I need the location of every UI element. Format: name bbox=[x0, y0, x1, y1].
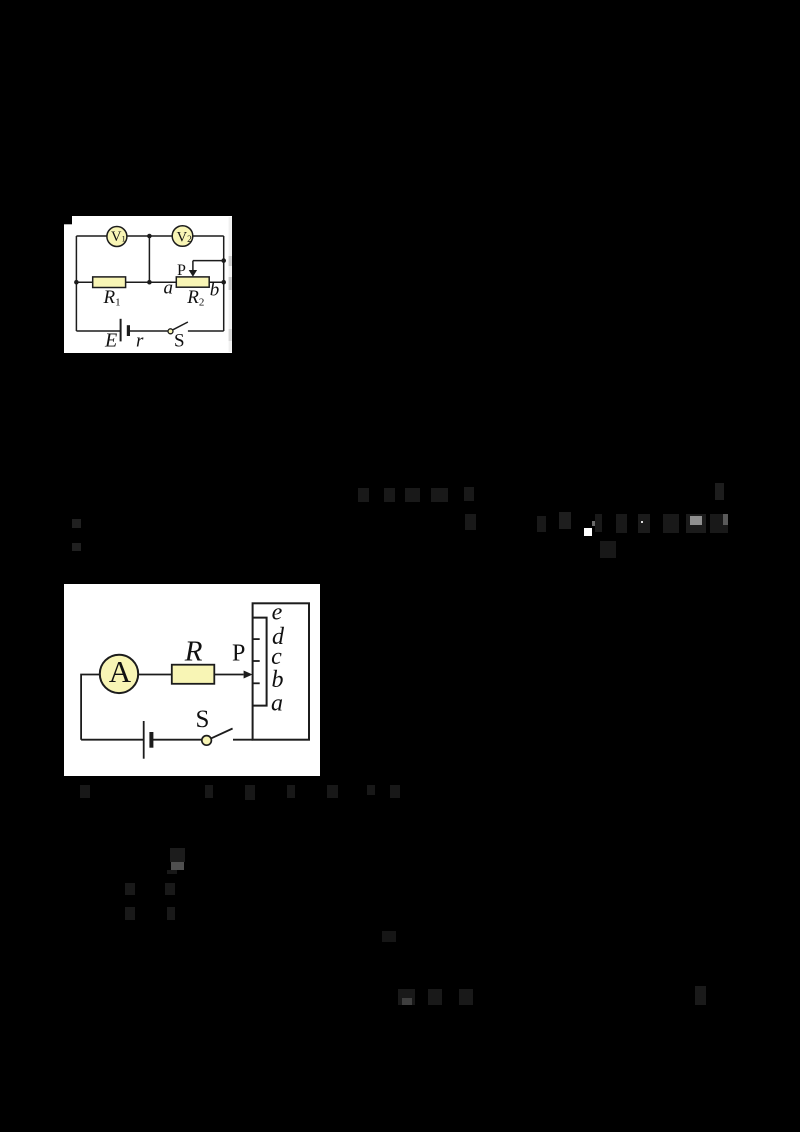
wire right bbox=[223, 236, 225, 331]
wire P arm bbox=[193, 260, 224, 270]
resistor R2 (rheostat) bbox=[176, 276, 209, 286]
wire R1 row bbox=[76, 281, 223, 283]
panel edge smudge bbox=[229, 217, 232, 352]
node junction wiper arm bbox=[221, 258, 226, 263]
battery E long plate bbox=[120, 318, 122, 341]
svg-text:P: P bbox=[232, 640, 245, 666]
voltmeter V1 bbox=[107, 226, 127, 246]
resistor R bbox=[172, 664, 215, 683]
wire middle vertical bbox=[148, 236, 150, 282]
svg-text:R: R bbox=[184, 635, 203, 667]
battery short plate bbox=[149, 732, 153, 748]
svg-text:S: S bbox=[195, 706, 209, 733]
svg-text:a: a bbox=[164, 277, 174, 298]
node junction left bbox=[74, 279, 79, 284]
voltmeter V2 bbox=[172, 225, 193, 246]
wire R to wiper arrow bbox=[214, 673, 243, 675]
tapped resistor ladder bar bbox=[252, 617, 266, 705]
tap tick b bbox=[252, 682, 259, 684]
tap tick c bbox=[252, 660, 259, 662]
wiper arrow P bbox=[189, 270, 197, 277]
circuit 1 panel bbox=[64, 216, 232, 353]
battery long plate bbox=[143, 721, 145, 759]
wire top bbox=[76, 235, 223, 237]
node junction top bbox=[147, 233, 152, 238]
battery E short plate bbox=[127, 325, 130, 336]
svg-text:b: b bbox=[210, 279, 220, 300]
wire left bbox=[75, 236, 77, 331]
panel corner notch bbox=[64, 216, 72, 224]
switch S lever bbox=[173, 322, 188, 330]
wire bottom bbox=[76, 330, 223, 332]
wire ammeter left bbox=[81, 674, 101, 739]
switch S pivot bbox=[168, 328, 173, 333]
tapped resistor outer box bbox=[252, 603, 308, 739]
svg-text:r: r bbox=[136, 330, 144, 351]
svg-text:A: A bbox=[109, 654, 132, 689]
node junction right bbox=[221, 279, 226, 284]
ammeter A bbox=[100, 654, 138, 692]
wire ammeter to R bbox=[138, 673, 171, 675]
tap tick d bbox=[252, 638, 259, 640]
circuit 2 panel bbox=[64, 584, 320, 776]
resistor R1 bbox=[93, 276, 126, 287]
svg-text:a: a bbox=[271, 690, 283, 716]
svg-text:e: e bbox=[272, 599, 283, 625]
switch lever bbox=[211, 728, 233, 738]
node junction middle bbox=[147, 279, 152, 284]
wire bottom bbox=[81, 738, 253, 740]
svg-text:P: P bbox=[177, 262, 186, 279]
wiper arrow head bbox=[243, 670, 252, 678]
switch pivot bbox=[202, 735, 212, 745]
svg-text:E: E bbox=[104, 329, 117, 351]
svg-text:b: b bbox=[271, 667, 283, 693]
faint residual text marks bbox=[0, 0, 800, 1]
svg-text:S: S bbox=[174, 330, 185, 351]
